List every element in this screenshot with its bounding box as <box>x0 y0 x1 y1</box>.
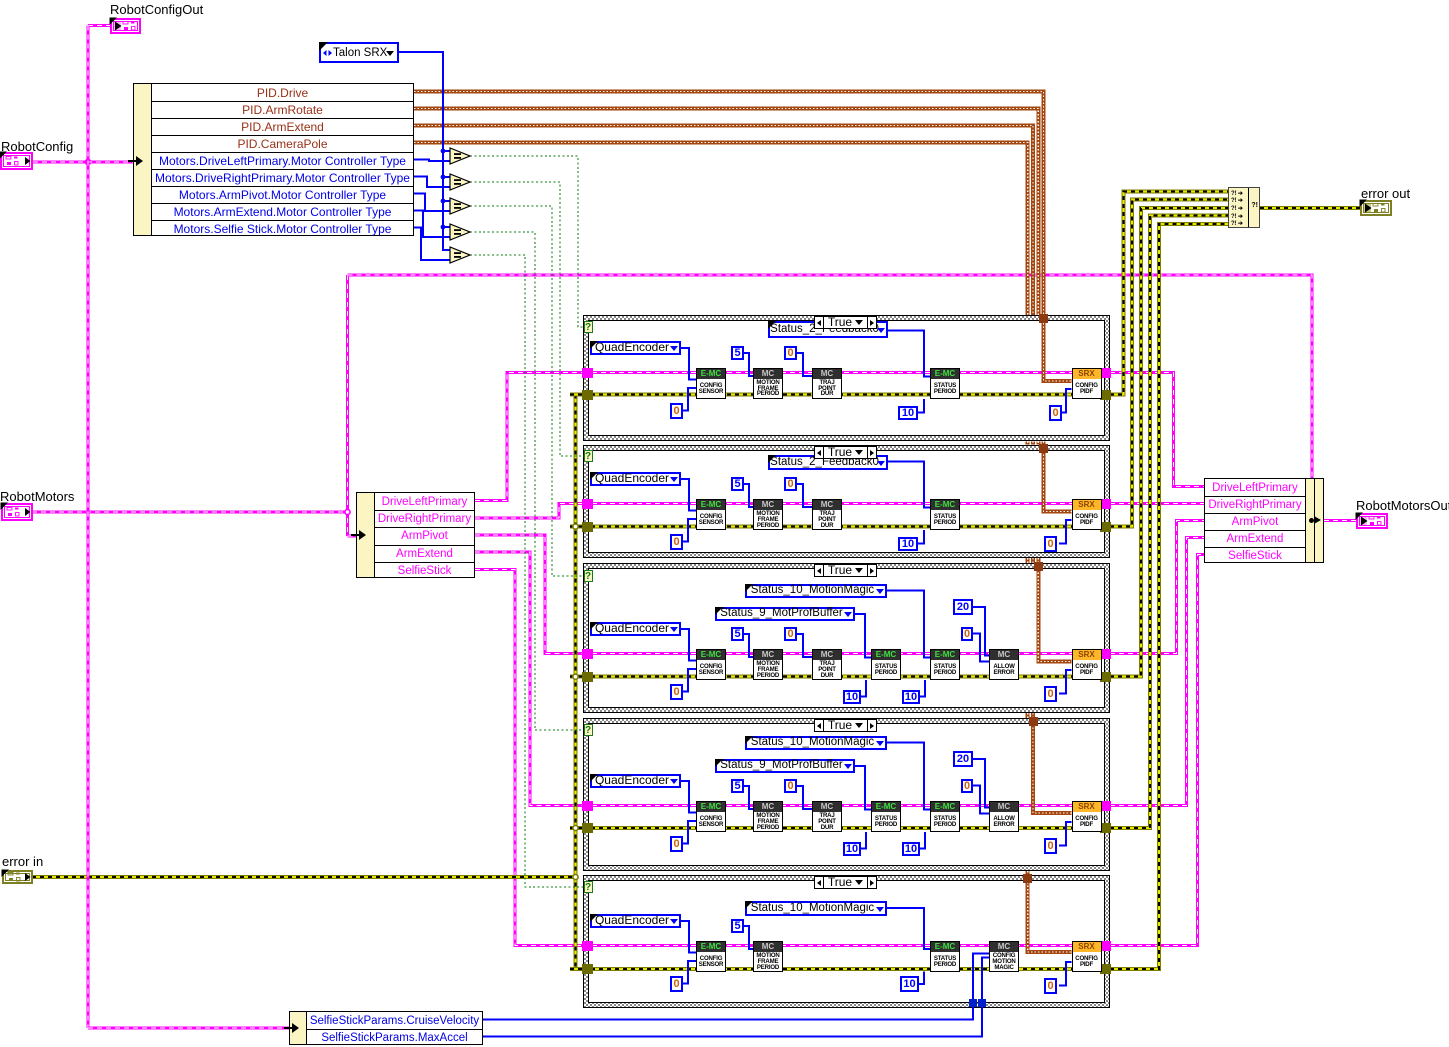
blue junction <box>441 175 446 180</box>
constant 5 case4 <box>731 779 744 793</box>
wire ArmPivot type to equals3 <box>414 194 450 212</box>
wire PIDF cluster into SRX CONFIG PIDF case1 <box>1044 323 1072 381</box>
case structure 4 (True) <box>583 718 1110 871</box>
True selector label case1 <box>814 316 877 329</box>
constant 0 (traj) case4 <box>784 779 797 793</box>
sub-VI MC TRAJ POINT DUR case3 <box>812 649 842 680</box>
constant 0 (traj) case1 <box>784 346 797 360</box>
enum Status_10_MotionMagic case4 <box>745 736 887 750</box>
wire PID wire under structure <box>1026 871 1030 875</box>
wire bundle to RobotMotorsOut <box>1324 519 1356 522</box>
wire QuadEncoder wire case3 <box>680 629 696 661</box>
wire PIDF cluster into SRX CONFIG PIDF case2 <box>1044 451 1072 512</box>
junction RobotMotors tee <box>345 509 350 514</box>
wire Status_10_MotionMagic wire case3 <box>887 591 930 658</box>
brown tunnel case1 <box>1039 314 1048 323</box>
wire 0 to CONFIG PIDF case2 <box>1059 520 1072 544</box>
wire case5 to bundle SelfieStick <box>1110 555 1204 946</box>
wire RobotConfig vertical trunk <box>87 26 90 1029</box>
constant 10b case3 <box>902 690 920 704</box>
wire 0 to CONFIG SENSOR case2 <box>683 519 696 542</box>
enum QuadEncoder case4 <box>590 774 681 788</box>
constant 20 case3 <box>953 599 973 615</box>
wire RobotMotors out <box>32 511 348 514</box>
wire 5 to MOTION FRAME PERIOD case2 <box>743 484 753 507</box>
wire equals3 to case3 selector <box>470 206 584 576</box>
label RobotMotors <box>0 489 74 504</box>
wire error stub into case3 <box>570 675 586 679</box>
wire PID wire under structure <box>1026 558 1030 563</box>
sub-VI SRX CONFIG PIDF case2 <box>1072 499 1102 530</box>
bundle by name RobotMotorsOut <box>1204 478 1324 563</box>
pink tunnel right case3 <box>1100 649 1111 659</box>
error junction <box>573 874 578 879</box>
case structure 3 (True) <box>583 563 1110 713</box>
wire 0 to CONFIG PIDF case1 <box>1059 389 1072 413</box>
blue tunnel CruiseVelocity <box>969 999 977 1007</box>
error tunnel right case2 <box>1100 522 1111 532</box>
wire equals2 to case2 selector <box>470 182 584 456</box>
control RobotConfig <box>0 152 33 170</box>
wire to SelfieStickParams unbundle <box>88 1027 292 1030</box>
constant 20 case4 <box>953 751 973 767</box>
wire PID wire under structure <box>1042 441 1046 444</box>
wire Status_10_MotionMagic wire case4 <box>887 743 930 810</box>
error tunnel left case4 <box>582 823 593 833</box>
wire RobotMotors vertical <box>346 275 349 536</box>
wire PIDF cluster into SRX CONFIG PIDF case4 <box>1033 724 1072 813</box>
sub-VI MC ALLOW ERROR case4 <box>989 801 1019 832</box>
wire PID.Drive wire <box>414 92 1044 320</box>
case selector ? case5 <box>584 881 593 893</box>
unbundle SelfieStickParams <box>289 1011 483 1045</box>
wire 0 to ALLOW ERROR case4 <box>973 786 989 814</box>
wire PID wire under structure <box>1026 441 1030 444</box>
blue junction <box>441 225 446 230</box>
enum Status_10_MotionMagic case5 <box>745 901 887 916</box>
wire equals1 to case1 selector <box>470 156 584 327</box>
wire merge to error out <box>1260 206 1360 210</box>
sub-VI E-MC STATUS PERIOD case5 <box>930 941 960 972</box>
wire motor ref wire through case5 <box>583 944 1110 947</box>
wire 0 to TRAJ POINT DUR case2 <box>796 484 812 507</box>
merge errors node <box>1228 187 1260 228</box>
sub-VI E-MC STATUS PERIOD A case4 <box>871 801 901 832</box>
wire SelfieStickParams.CruiseVelocity wire <box>483 1003 973 1020</box>
case selector ? case4 <box>584 724 593 736</box>
constant 0 (allow) case4 <box>961 779 973 793</box>
wire PID.CameraPole wire <box>414 143 1028 316</box>
wire Talon SRX constant wire <box>399 52 450 250</box>
sub-VI E-MC STATUS PERIOD case2 <box>930 499 960 530</box>
sub-VI SRX CONFIG PIDF case5 <box>1072 941 1102 972</box>
equals comparison 4 <box>449 223 472 241</box>
error tunnel left case2 <box>582 522 593 532</box>
sub-VI MC MOTION FRAME PERIOD case3 <box>753 649 783 680</box>
wire 0 to TRAJ POINT DUR case4 <box>796 786 812 809</box>
wire case5 error to merge <box>1110 224 1228 969</box>
equals comparison 5 <box>449 246 472 264</box>
wire error stub into case2 <box>570 525 586 529</box>
constant 10b case4 <box>902 842 920 856</box>
wire 5 to MOTION FRAME PERIOD case3 <box>743 634 753 657</box>
constant 0 (sensor) case1 <box>670 403 683 419</box>
wire QuadEncoder wire case1 <box>680 348 696 380</box>
enum Status_2_Feedback0 case1 <box>768 321 888 338</box>
wire SelfieStick type to equals5 <box>414 228 450 261</box>
wire error stub into case4 <box>570 826 586 830</box>
equals comparison 3 <box>449 197 472 215</box>
error tunnel left case5 <box>582 964 593 974</box>
pink tunnel left case3 <box>582 649 593 659</box>
case selector ? case3 <box>584 570 593 582</box>
wire 10 to STATUS PERIOD case5 <box>919 972 924 985</box>
blue tunnel MaxAccel <box>978 999 986 1007</box>
wire 20 to ALLOW ERROR case3 <box>973 607 989 656</box>
wire case4 error to merge <box>1110 216 1228 828</box>
constant 0 (pidf) case4 <box>1044 838 1057 854</box>
pink tunnel left case5 <box>582 941 593 951</box>
wire Status_2_Feedback0 wire case2 <box>888 462 930 508</box>
wire 10 to STATUS PERIOD case2 <box>918 530 924 544</box>
wire PID wire under structure <box>1031 558 1035 563</box>
wire QuadEncoder wire case4 <box>680 781 696 813</box>
wire error trunk vertical <box>574 395 578 970</box>
wire Talon SRX branch to equals <box>443 226 450 228</box>
label error in <box>2 854 43 869</box>
enum Status_10_MotionMagic case3 <box>745 584 887 598</box>
wire 0 to CONFIG PIDF case5 <box>1059 962 1072 986</box>
wire equals5 to case5 selector <box>470 255 584 887</box>
True selector label case5 <box>814 876 877 889</box>
wire Status_10_MotionMagic wire case5 <box>887 908 930 949</box>
error junction <box>573 524 578 529</box>
wire QuadEncoder wire case5 <box>680 921 696 953</box>
sub-VI MC MOTION FRAME PERIOD case4 <box>753 801 783 832</box>
unbundle by name RobotMotors <box>356 492 475 578</box>
sub-VI MC CONFIG MOTION MAGIC case5 <box>989 941 1019 972</box>
sub-VI MC MOTION FRAME PERIOD case2 <box>753 499 783 530</box>
wire equals4 to case4 selector <box>470 232 584 730</box>
wire case3 to bundle ArmPivot <box>1110 521 1204 654</box>
True selector label case3 <box>814 564 877 577</box>
pink tunnel left case4 <box>582 801 593 811</box>
control RobotMotors <box>1 503 33 521</box>
enum Status_2_Feedback0 case2 <box>768 455 888 470</box>
equals comparison 2 <box>449 173 472 191</box>
wire ArmExtend to case4 <box>475 552 583 805</box>
blue junction <box>441 149 446 154</box>
sub-VI MC MOTION FRAME PERIOD case1 <box>753 368 783 399</box>
enum constant Talon SRX <box>319 42 399 63</box>
sub-VI SRX CONFIG PIDF case1 <box>1072 368 1102 399</box>
wire SelfieStickParams.MaxAccel wire <box>483 1003 982 1037</box>
wire error wire through case4 <box>583 826 1110 830</box>
wire PIDF cluster into SRX CONFIG PIDF case5 <box>1028 882 1072 952</box>
wire 20 to ALLOW ERROR case4 <box>973 759 989 808</box>
brown tunnel case2 <box>1039 444 1048 453</box>
wire PID wire under structure <box>1031 713 1035 718</box>
wire PID.Drive into case2 <box>1042 441 1046 449</box>
wire PID wire under structure <box>1026 713 1030 718</box>
wire case3 error to merge <box>1110 208 1228 677</box>
brown tunnel case4 <box>1029 717 1038 726</box>
wire case1 error to merge <box>1110 192 1228 395</box>
wire 0 to TRAJ POINT DUR case3 <box>796 634 812 657</box>
sub-VI E-MC CONFIG SENSOR case1 <box>696 368 726 399</box>
wire 0 to ALLOW ERROR case3 <box>973 634 989 662</box>
junction RobotConfig tee <box>85 159 90 164</box>
constant 5 case1 <box>731 346 744 360</box>
constant 10 case2 <box>898 537 918 551</box>
pink tunnel right case5 <box>1100 941 1111 951</box>
sub-VI E-MC CONFIG SENSOR case2 <box>696 499 726 530</box>
wire PID wire under structure <box>1036 441 1040 444</box>
unbundle input arrow <box>136 156 143 166</box>
constant 5 case2 <box>731 477 744 491</box>
enum QuadEncoder case2 <box>590 472 681 486</box>
constant 0 (sensor) case4 <box>670 836 683 852</box>
wire DriveLeftPrimary type to equals1 <box>414 160 450 162</box>
wire motor ref wire through case1 <box>583 371 1110 374</box>
constant 5 case3 <box>731 627 744 641</box>
wire Status_2_Feedback0 wire case1 <box>888 331 930 377</box>
wire case2 error to merge <box>1110 200 1228 527</box>
wire case4 to bundle ArmExtend <box>1110 538 1204 806</box>
True selector label case2 <box>814 446 877 459</box>
sub-VI MC TRAJ POINT DUR case4 <box>812 801 842 832</box>
wire case1 to bundle DriveLeftPrimary <box>1110 373 1204 487</box>
enum QuadEncoder case1 <box>590 341 681 355</box>
wire 5 to MOTION FRAME PERIOD case1 <box>743 353 753 376</box>
wire case2 to bundle DriveRightPrimary <box>1110 502 1204 505</box>
wire 0 to CONFIG SENSOR case1 <box>683 388 696 411</box>
sub-VI SRX CONFIG PIDF case4 <box>1072 801 1102 832</box>
constant 0 (pidf) case1 <box>1049 405 1062 421</box>
constant 0 (traj) case3 <box>784 627 797 641</box>
wire error wire through case5 <box>583 967 1110 971</box>
wire DriveRightPrimary to case2 <box>475 504 583 518</box>
error tunnel left case1 <box>582 390 593 400</box>
indicator error out <box>1360 200 1392 216</box>
wire PID wire under structure <box>1031 441 1035 444</box>
pink tunnel left case2 <box>582 499 593 509</box>
wire 10 to STATUS PERIOD A case4 <box>861 832 866 849</box>
error tunnel right case1 <box>1100 390 1111 400</box>
wire Talon SRX branch to equals <box>443 200 450 202</box>
wire error in main <box>32 875 576 879</box>
case structure 1 (True) <box>583 315 1110 441</box>
wire CruiseVelocity into CONFIG MOTION MAGIC <box>973 954 989 1004</box>
label RobotConfig <box>1 139 73 154</box>
motors unbundle input arrow <box>359 530 366 540</box>
pink tunnel left case1 <box>582 368 593 378</box>
wire 0 to CONFIG PIDF case4 <box>1059 822 1072 846</box>
wire PIDF cluster into SRX CONFIG PIDF case3 <box>1038 569 1071 662</box>
label RobotConfigOut <box>110 2 203 17</box>
wire PID.ArmRotate wire <box>414 109 1038 316</box>
sub-VI E-MC STATUS PERIOD case3 <box>930 649 960 680</box>
constant 10 case1 <box>898 406 918 420</box>
sub-VI E-MC STATUS PERIOD A case3 <box>871 649 901 680</box>
indicator RobotConfigOut <box>110 18 141 34</box>
pink tunnel right case2 <box>1100 499 1111 509</box>
sub-VI MC ALLOW ERROR case3 <box>989 649 1019 680</box>
wire QuadEncoder wire case2 <box>680 479 696 511</box>
wire PID wire under structure <box>1036 558 1040 563</box>
control error in <box>2 870 33 884</box>
wire to RobotConfigOut <box>88 24 111 27</box>
enum Status_9_MotProfBuffer case4 <box>715 759 855 773</box>
indicator RobotMotorsOut <box>1356 513 1388 529</box>
brown tunnel case3 <box>1034 562 1043 571</box>
wire RobotMotors top trunk to bundle <box>348 275 1313 479</box>
case structure 5 (True) <box>583 875 1110 1008</box>
wire ArmExtend type to equals4 <box>414 211 450 238</box>
sub-VI E-MC CONFIG SENSOR case5 <box>696 941 726 972</box>
wire error wire through case2 <box>583 525 1110 529</box>
enum Status_9_MotProfBuffer case3 <box>715 607 855 621</box>
constant 5 case5 <box>731 919 744 933</box>
sub-VI E-MC STATUS PERIOD case4 <box>930 801 960 832</box>
constant 0 (pidf) case2 <box>1044 536 1057 552</box>
bundle middle connector <box>1309 518 1314 523</box>
wire error stub into case1 <box>570 393 586 397</box>
SelfieStickParams input arrow <box>292 1023 299 1033</box>
wire Talon SRX branch to equals <box>443 176 450 178</box>
wire 0 to CONFIG SENSOR case4 <box>683 821 696 844</box>
error junction <box>573 674 578 679</box>
wire 5 to MOTION FRAME PERIOD case5 <box>743 926 753 949</box>
label RobotMotorsOut <box>1356 498 1449 513</box>
constant 0 (sensor) case3 <box>670 684 683 700</box>
unbundle by name RobotConfig <box>133 83 414 236</box>
sub-VI E-MC CONFIG SENSOR case4 <box>696 801 726 832</box>
case selector ? case2 <box>584 450 593 462</box>
wire 0 to CONFIG SENSOR case3 <box>683 669 696 692</box>
sub-VI MC TRAJ POINT DUR case2 <box>812 499 842 530</box>
label error out <box>1361 186 1410 201</box>
pink tunnel right case4 <box>1100 801 1111 811</box>
error tunnel right case3 <box>1100 672 1111 682</box>
sub-VI MC MOTION FRAME PERIOD case5 <box>753 941 783 972</box>
constant 0 (allow) case3 <box>961 627 973 641</box>
equals comparison 1 <box>449 147 472 165</box>
wire RobotConfig to unbundle <box>33 161 135 164</box>
wire motor ref wire through case3 <box>583 652 1110 655</box>
wire Talon SRX branch to equals <box>443 150 450 152</box>
wire Status_9_MotProfBuffer wire case3 <box>855 614 871 658</box>
wire 0 to CONFIG PIDF case3 <box>1059 670 1072 694</box>
case structure 2 (True) <box>583 445 1110 558</box>
blue junction <box>441 199 446 204</box>
constant 0 (pidf) case5 <box>1044 978 1057 994</box>
constant 10a case3 <box>843 690 861 704</box>
error tunnel right case5 <box>1100 964 1111 974</box>
True selector label case4 <box>814 719 877 732</box>
sub-VI E-MC STATUS PERIOD case1 <box>930 368 960 399</box>
wire 0 to CONFIG SENSOR case5 <box>683 961 696 984</box>
constant 0 (sensor) case2 <box>670 534 683 550</box>
wire 0 to TRAJ POINT DUR case1 <box>796 353 812 376</box>
constant 10a case4 <box>843 842 861 856</box>
wire Status_9_MotProfBuffer wire case4 <box>855 766 871 810</box>
wire DriveLeftPrimary to case1 <box>475 373 583 501</box>
wire 10 to STATUS PERIOD A case3 <box>861 680 866 697</box>
wire motor ref wire through case2 <box>583 502 1110 505</box>
brown tunnel case5 <box>1023 874 1032 883</box>
wire SelfieStick to case5 <box>475 569 583 945</box>
constant 0 (sensor) case5 <box>670 976 683 992</box>
wire 5 to MOTION FRAME PERIOD case4 <box>743 786 753 809</box>
error tunnel right case4 <box>1100 823 1111 833</box>
wire into motors unbundle <box>348 535 358 538</box>
constant 0 (pidf) case3 <box>1044 686 1057 702</box>
wire MaxAccel into CONFIG MOTION MAGIC <box>982 958 989 1004</box>
wire error stub into case5 <box>570 967 586 971</box>
constant 10 case5 <box>900 976 919 992</box>
wire 10 to STATUS PERIOD case1 <box>918 399 924 413</box>
pink tunnel right case1 <box>1100 368 1111 378</box>
sub-VI SRX CONFIG PIDF case3 <box>1072 649 1102 680</box>
sub-VI E-MC CONFIG SENSOR case3 <box>696 649 726 680</box>
wire 10 to STATUS PERIOD B case3 <box>920 680 925 697</box>
wire DriveRightPrimary type to equals2 <box>414 177 450 188</box>
error junction <box>573 825 578 830</box>
wire ArmPivot to case3 <box>475 535 583 654</box>
enum QuadEncoder case3 <box>590 622 681 636</box>
wire error wire through case1 <box>583 393 1110 397</box>
enum QuadEncoder case5 <box>590 914 681 928</box>
wire 10 to STATUS PERIOD B case4 <box>920 832 925 849</box>
case selector ? case1 <box>584 321 593 333</box>
wire error wire through case3 <box>583 675 1110 679</box>
error tunnel left case3 <box>582 672 593 682</box>
constant 0 (traj) case2 <box>784 477 797 491</box>
sub-VI MC TRAJ POINT DUR case1 <box>812 368 842 399</box>
wire PID.ArmExtend wire <box>414 126 1033 316</box>
wire motor ref wire through case4 <box>583 804 1110 807</box>
